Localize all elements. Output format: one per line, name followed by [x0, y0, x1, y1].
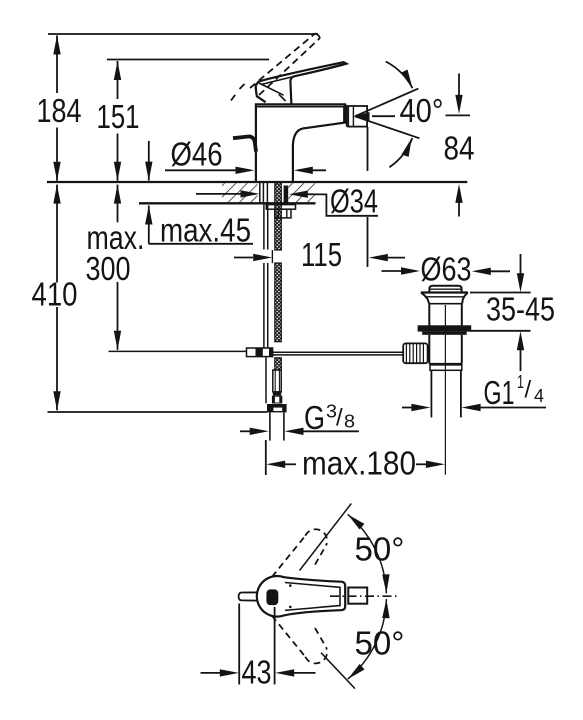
- body top inner line: [256, 106, 344, 108]
- waste valve flange: [421, 291, 468, 293]
- svg-text:Ø63: Ø63: [421, 251, 472, 288]
- top view centerline: [330, 595, 397, 597]
- svg-text:151: 151: [97, 98, 140, 135]
- deck hatching: [222, 183, 258, 202]
- dimension Ø34 leader: [196, 193, 255, 195]
- 50 degree lower arc: [348, 599, 387, 679]
- svg-text:Ø34: Ø34: [330, 183, 378, 220]
- dimension max.300 line: [117, 185, 119, 223]
- svg-text:43: 43: [242, 654, 272, 691]
- faucet body outline: [256, 104, 345, 182]
- G3/8 connection nut: [267, 404, 287, 412]
- O-ring: [418, 325, 472, 331]
- 40 degree upper arc: [386, 62, 413, 89]
- 40 degree fan lines: [355, 89, 419, 117]
- mounting nut: [275, 209, 291, 218]
- svg-text:4: 4: [534, 386, 544, 406]
- svg-text:35-45: 35-45: [486, 291, 555, 328]
- svg-text:max.180: max.180: [302, 444, 416, 481]
- dimension 184 line: [56, 36, 58, 94]
- horizontal rod to waste valve: [273, 351, 404, 353]
- 50 degree upper arc: [348, 514, 387, 593]
- svg-text:40°: 40°: [400, 92, 444, 129]
- hose end fitting: [272, 396, 282, 404]
- svg-text:/: /: [336, 405, 343, 432]
- waste valve cap: [429, 286, 461, 292]
- rod coupling: [247, 348, 273, 357]
- extension line from spout tip: [367, 127, 369, 171]
- lever cap left side: [256, 82, 266, 103]
- washer under deck: [266, 205, 295, 210]
- mounting shank lines through deck: [260, 183, 268, 203]
- dimension G3/8 arrows: [240, 430, 251, 432]
- svg-text:115: 115: [301, 236, 342, 273]
- deck bottom line: [139, 202, 316, 204]
- dimension G1 1/4 arrows: [402, 407, 412, 409]
- svg-text:Ø46: Ø46: [171, 136, 223, 173]
- dimension 151 line: [117, 61, 119, 99]
- svg-text:8: 8: [344, 411, 355, 431]
- top view lever pivot blob: [266, 589, 278, 605]
- waste valve body: [428, 304, 430, 326]
- threaded hose braid upper: [275, 183, 282, 250]
- 50 degree lower reference line: [321, 653, 355, 689]
- top view inner lines: [285, 583, 340, 611]
- valve lower body: [428, 335, 430, 364]
- top view dashed handle upper: [272, 529, 327, 577]
- svg-text:184: 184: [37, 92, 82, 129]
- svg-text:410: 410: [32, 276, 78, 313]
- tailpipe: [430, 370, 432, 417]
- dimension 410 line: [56, 185, 58, 283]
- svg-text:G1: G1: [484, 374, 515, 411]
- hose break tick: [271, 250, 273, 263]
- aerator box: [348, 106, 367, 127]
- top view screw dots: [289, 584, 292, 587]
- dimension 35-45: [520, 254, 522, 274]
- 40 degree lower arc: [389, 138, 412, 167]
- pull rod lower: [265, 357, 267, 403]
- supply tube: [269, 412, 271, 440]
- handle raised dashed outline: [231, 34, 320, 101]
- pop-up knob on body: [233, 136, 256, 151]
- 50 degree upper reference line: [300, 504, 352, 571]
- hose end tube: [273, 370, 281, 392]
- dimension max.180: [265, 440, 267, 475]
- valve centerline: [444, 305, 446, 475]
- svg-text:50°: 50°: [355, 531, 405, 568]
- svg-text:/: /: [525, 377, 532, 404]
- svg-text:300: 300: [86, 250, 131, 287]
- deck top surface line: [47, 181, 467, 183]
- dimension 43: [238, 604, 240, 685]
- pull rod tube: [264, 205, 268, 348]
- slip ring: [430, 365, 462, 370]
- top view pop-up pin: [239, 592, 257, 600]
- extension line top of 151: [107, 59, 269, 61]
- svg-text:1: 1: [517, 372, 524, 392]
- extension line top of 184: [48, 33, 318, 35]
- knurled adjuster knob: [403, 343, 427, 363]
- top view aerator box: [348, 588, 367, 604]
- horizontal pop-up rod to the left: [109, 350, 247, 352]
- 40 degree fan vertex arrow: [355, 112, 370, 121]
- dimension Ø63 arrows: [382, 270, 403, 272]
- spout end face: [344, 105, 347, 127]
- top view dashed handle lower: [272, 616, 327, 664]
- dimension Ø46 arrows: [165, 169, 250, 171]
- top view body outline: [257, 576, 345, 617]
- faucet lever solid: [259, 62, 347, 104]
- dimension 84 arrows: [458, 74, 460, 97]
- svg-text:max.45: max.45: [160, 212, 251, 249]
- svg-text:G: G: [304, 399, 325, 436]
- lever top face inner line: [261, 64, 342, 84]
- svg-text:84: 84: [444, 130, 475, 167]
- bottom reference line (410): [48, 411, 268, 413]
- dimension max.45 arrows: [148, 141, 150, 181]
- svg-text:50°: 50°: [355, 625, 405, 662]
- dimension 115 arrows: [234, 257, 253, 259]
